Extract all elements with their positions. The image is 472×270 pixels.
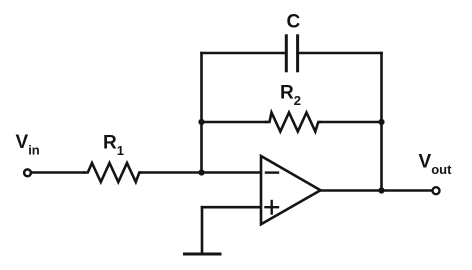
wire right side down to R2 junction bbox=[380, 53, 383, 122]
wire node B to output terminal bbox=[382, 189, 432, 192]
node feedback right junction bbox=[378, 119, 384, 125]
wire op-amp output to node B bbox=[321, 189, 382, 192]
plus input symbol bbox=[266, 201, 279, 214]
wire inverting input to op-amp bbox=[202, 171, 262, 174]
terminal Vout bbox=[433, 187, 440, 194]
wire input to R1 bbox=[33, 171, 84, 174]
svg-text:Vout: Vout bbox=[419, 152, 453, 178]
wire node A up to R2 junction bbox=[200, 122, 203, 173]
svg-text:Vin: Vin bbox=[16, 132, 40, 158]
svg-text:C: C bbox=[287, 12, 301, 33]
node R2 left junction bbox=[198, 119, 204, 125]
node B (output junction) bbox=[378, 187, 384, 193]
wire R2 right lead bbox=[320, 121, 382, 124]
wire R1 to node A bbox=[141, 171, 202, 174]
minus input symbol bbox=[266, 171, 278, 173]
svg-text:R1: R1 bbox=[103, 133, 124, 159]
wire capacitor to top-right corner bbox=[298, 52, 382, 55]
wire R2 left lead bbox=[202, 121, 267, 124]
wire non-inverting input to op-amp bbox=[202, 206, 261, 209]
capacitor C bbox=[286, 36, 297, 71]
wire down from plus input to ground bbox=[201, 207, 204, 253]
wire top-left to capacitor bbox=[202, 52, 287, 55]
resistor R1 bbox=[84, 163, 141, 182]
ground bbox=[185, 253, 221, 256]
wire up to capacitor branch corner bbox=[200, 53, 203, 122]
terminal Vin bbox=[24, 169, 31, 176]
node A (inverting input junction) bbox=[198, 169, 204, 175]
wire right side down to output node bbox=[380, 122, 383, 191]
resistor R2 bbox=[266, 113, 320, 132]
svg-text:R2: R2 bbox=[280, 83, 301, 109]
op-amp U1 bbox=[261, 156, 321, 224]
